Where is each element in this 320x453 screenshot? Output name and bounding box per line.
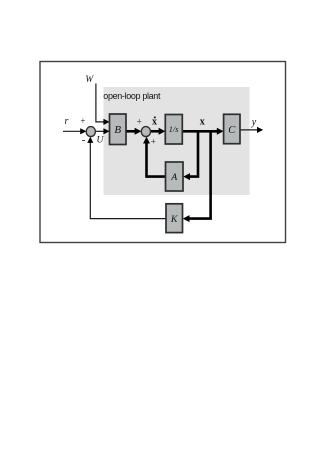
svg-text:x: x <box>200 116 205 127</box>
svg-text:U: U <box>97 136 105 146</box>
svg-text:open-loop plant: open-loop plant <box>103 91 161 101</box>
svg-text:A: A <box>170 172 178 183</box>
svg-text:W: W <box>85 75 94 85</box>
svg-text:K: K <box>170 214 178 225</box>
svg-text:-: - <box>82 134 86 146</box>
svg-text:C: C <box>228 125 236 136</box>
svg-text:y: y <box>251 117 257 128</box>
svg-text:+: + <box>151 137 156 147</box>
svg-text:+: + <box>80 116 85 126</box>
svg-text:+: + <box>137 117 142 127</box>
svg-text:B: B <box>114 124 121 136</box>
svg-text:1/s: 1/s <box>169 125 179 134</box>
svg-text:r: r <box>65 116 69 127</box>
